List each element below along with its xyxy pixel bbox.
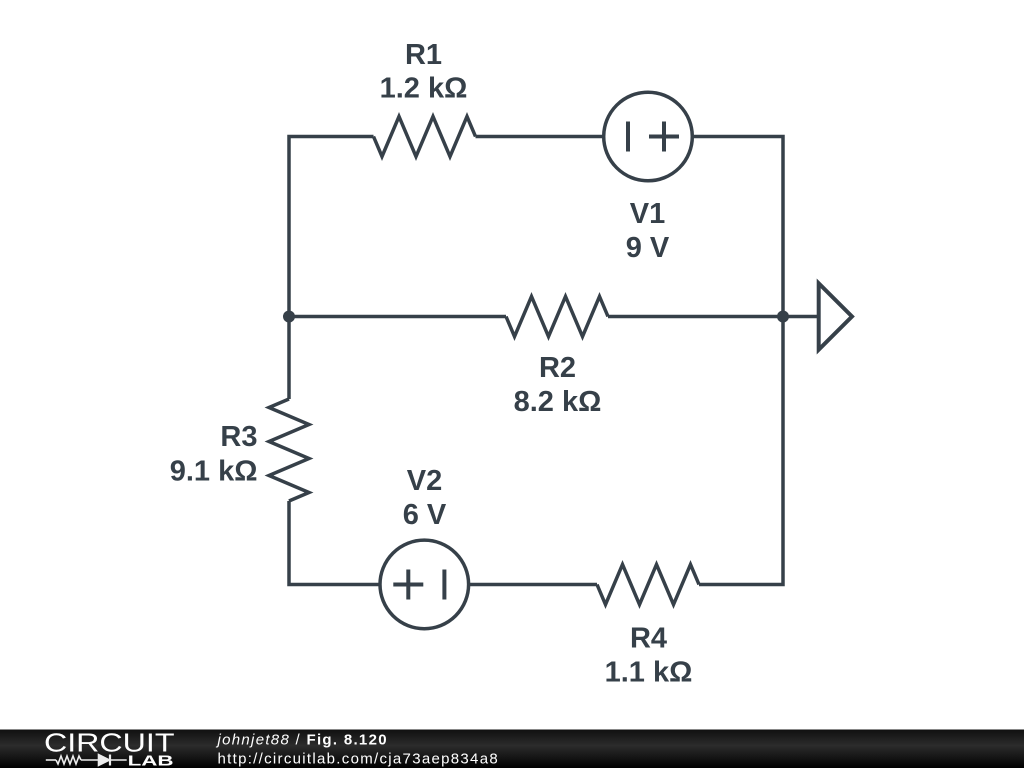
output flag triangle <box>819 283 852 349</box>
svg-text:1.2 kΩ: 1.2 kΩ <box>380 73 468 105</box>
svg-text:http://circuitlab.com/cja73aep: http://circuitlab.com/cja73aep834a8 <box>218 751 499 768</box>
V1 minus terminal bar <box>626 122 630 152</box>
wire V1 to top-right corner, right vertical, bottom-right <box>694 137 783 585</box>
wire middle left <box>289 315 506 319</box>
CircuitLab logo schematic (resistor + diode) <box>46 755 127 766</box>
svg-text:9 V: 9 V <box>626 232 670 264</box>
wire middle right <box>608 315 783 319</box>
resistor R2 <box>506 297 608 337</box>
resistor R1 <box>374 117 476 157</box>
svg-text:8.2 kΩ: 8.2 kΩ <box>514 386 602 418</box>
node A (left junction) <box>283 311 295 323</box>
node B (right junction) <box>777 311 789 323</box>
wire V2 to R4 <box>470 583 597 587</box>
wire to output flag <box>783 315 818 319</box>
logo diode <box>99 755 110 766</box>
svg-text:V1: V1 <box>630 198 665 230</box>
svg-text:R3: R3 <box>220 421 257 453</box>
svg-text:9.1 kΩ: 9.1 kΩ <box>170 456 258 488</box>
voltage source V2 <box>380 540 469 629</box>
V2 minus terminal bar <box>442 570 446 600</box>
V2 plus sign <box>393 570 423 600</box>
resistor R3 <box>269 399 309 501</box>
svg-text:LAB: LAB <box>128 753 174 768</box>
footer bar <box>0 730 1024 768</box>
svg-text:R4: R4 <box>630 623 667 655</box>
V1 plus sign <box>649 122 679 152</box>
logo wire right <box>110 759 127 761</box>
logo wire mid <box>81 759 99 761</box>
logo wire left <box>46 759 56 761</box>
wire left vertical lower + bottom-left <box>289 501 379 585</box>
svg-text:R1: R1 <box>405 39 442 71</box>
wire top-left horizontal + left vertical upper <box>289 137 374 400</box>
resistor R4 <box>597 565 699 605</box>
logo resistor <box>56 756 81 764</box>
svg-text:V2: V2 <box>407 465 442 497</box>
svg-text:6 V: 6 V <box>403 499 447 531</box>
svg-text:1.1 kΩ: 1.1 kΩ <box>605 657 693 689</box>
svg-text:johnjet88 / Fig. 8.120: johnjet88 / Fig. 8.120 <box>216 732 388 749</box>
wire R1 to V1 <box>476 135 603 139</box>
voltage source V1 <box>604 92 693 181</box>
svg-text:R2: R2 <box>539 352 576 384</box>
